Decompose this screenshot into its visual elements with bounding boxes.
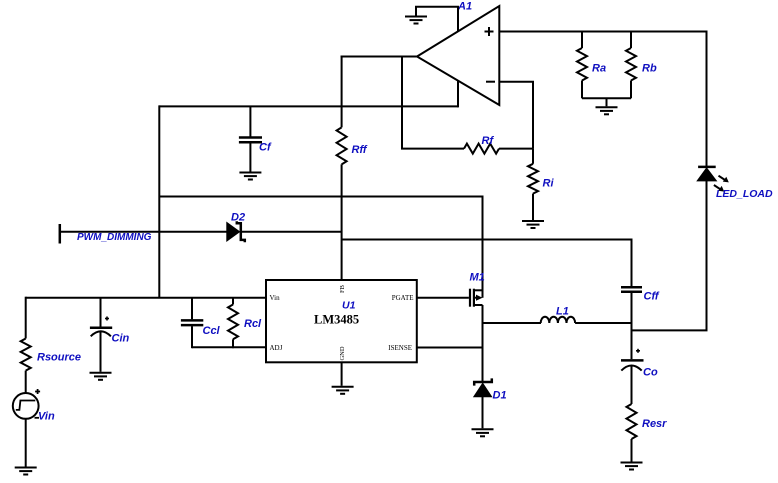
wire M1 drain down (switch node) bbox=[482, 305, 484, 381]
ground (Cin) bbox=[90, 373, 112, 380]
svg-text:Vin: Vin bbox=[38, 411, 55, 423]
capacitor Ccl bbox=[181, 298, 221, 349]
ground (Ri) bbox=[522, 221, 544, 228]
svg-text:PGATE: PGATE bbox=[392, 294, 414, 302]
svg-text:Resr: Resr bbox=[642, 418, 667, 430]
wire Cff to switch output node bbox=[631, 293, 633, 324]
svg-text:Vin: Vin bbox=[270, 294, 281, 302]
svg-text:FB: FB bbox=[339, 284, 346, 293]
wire output branch down to Rf bbox=[402, 56, 464, 149]
ground (Vin) bbox=[15, 468, 37, 475]
resistor Rf bbox=[464, 135, 499, 154]
svg-text:LED_LOAD: LED_LOAD bbox=[716, 188, 773, 200]
wire ISENSE bbox=[417, 347, 483, 349]
wire switch node to L1 bbox=[482, 322, 542, 324]
svg-text:A1: A1 bbox=[457, 1, 472, 13]
PWM_DIMMING input port bbox=[60, 224, 152, 244]
capacitor Co (polarized) bbox=[621, 349, 658, 379]
svg-text:Rf: Rf bbox=[482, 135, 495, 147]
svg-text:Rsource: Rsource bbox=[37, 352, 81, 364]
ground (U1) bbox=[332, 387, 354, 394]
svg-text:U1: U1 bbox=[342, 300, 356, 312]
svg-text:Cff: Cff bbox=[644, 291, 660, 303]
svg-text:ISENSE: ISENSE bbox=[388, 344, 412, 352]
op-amp U-A1 triangle bbox=[417, 6, 499, 105]
wire Resr to ground bbox=[631, 439, 633, 462]
capacitor Cf bbox=[239, 106, 272, 171]
IC U1 LM3485 bbox=[266, 280, 417, 362]
wire LED to output node bbox=[631, 181, 707, 331]
wire PGATE to M1 gate bbox=[417, 297, 469, 299]
inductor L1 bbox=[541, 306, 575, 324]
wire input rail bbox=[26, 297, 266, 299]
ground (op-amp V+) bbox=[405, 17, 427, 24]
capacitor Cff bbox=[621, 287, 660, 302]
resistor Rb bbox=[626, 32, 657, 99]
svg-text:Rcl: Rcl bbox=[244, 318, 262, 330]
wire op-amp V+ supply pin to ground bbox=[416, 7, 458, 32]
wire ADJ pin bbox=[192, 346, 266, 348]
svg-text:Rb: Rb bbox=[642, 63, 657, 75]
wire Rf to inverting node bbox=[499, 148, 533, 150]
svg-text:PWM_DIMMING: PWM_DIMMING bbox=[77, 232, 152, 243]
wire Ra/Rb bottoms bbox=[582, 97, 631, 99]
svg-text:Ri: Ri bbox=[543, 178, 555, 190]
ground (D1) bbox=[472, 429, 494, 436]
wire D2 cathode to FB node bbox=[242, 231, 342, 233]
svg-text:GND: GND bbox=[339, 346, 346, 360]
diode D2 (schottky) bbox=[227, 212, 245, 243]
ground (Resr) bbox=[621, 463, 643, 470]
wire op-amp noninverting input bbox=[499, 31, 707, 33]
diode D1 (schottky) bbox=[474, 378, 507, 401]
svg-text:Cin: Cin bbox=[112, 333, 130, 345]
wire D1 anode to ground bbox=[482, 397, 484, 429]
wire L1 to output node bbox=[575, 322, 632, 324]
wire left vertical rail bbox=[158, 105, 160, 297]
resistor Ra bbox=[577, 32, 606, 99]
resistor Resr bbox=[627, 404, 668, 439]
svg-text:Ccl: Ccl bbox=[203, 325, 221, 337]
resistor Ri bbox=[528, 149, 554, 220]
svg-text:LM3485: LM3485 bbox=[314, 313, 359, 327]
svg-text:M1: M1 bbox=[470, 272, 485, 284]
wire PWM_DIMMING to D2 bbox=[60, 231, 228, 233]
ground (Ra/Rb) bbox=[596, 107, 618, 114]
svg-text:Rff: Rff bbox=[352, 144, 368, 156]
svg-text:ADJ: ADJ bbox=[270, 344, 283, 352]
svg-text:Co: Co bbox=[643, 367, 658, 379]
wire output node to Co bbox=[631, 323, 633, 359]
svg-text:L1: L1 bbox=[556, 306, 569, 318]
resistor Rcl bbox=[228, 298, 262, 349]
resistor Rsource bbox=[21, 297, 81, 393]
wire op-amp inverting input down to Rf bbox=[499, 82, 533, 149]
wire Rff down to FB pin of U1 bbox=[341, 164, 343, 280]
source Vin (step voltage source) bbox=[13, 389, 55, 423]
transistor M1 (PMOS) bbox=[470, 272, 485, 307]
wire feedback bus (node at y=106) bbox=[159, 105, 458, 107]
wire Cin to ground bbox=[100, 332, 102, 372]
wire op-amp output bbox=[341, 56, 418, 58]
wire op-amp V- supply pin bbox=[457, 81, 459, 107]
wire right rail to LED bbox=[706, 32, 708, 167]
svg-text:D1: D1 bbox=[493, 390, 507, 402]
wire Co to Resr bbox=[631, 366, 633, 404]
wire bus from left rail to M1 source bbox=[159, 197, 482, 298]
LED diode LED_LOAD bbox=[697, 167, 729, 192]
svg-text:D2: D2 bbox=[231, 212, 245, 224]
wire Vin source to ground bbox=[25, 419, 27, 467]
svg-text:Ra: Ra bbox=[592, 63, 606, 75]
svg-text:Cf: Cf bbox=[259, 142, 272, 154]
wire op-amp output down to Rff bbox=[341, 56, 343, 128]
capacitor Cin (polarized) bbox=[90, 298, 130, 345]
wire FB node to Cff bbox=[342, 240, 632, 287]
ground (Cf) bbox=[239, 173, 261, 180]
wire to ground (Ra/Rb) bbox=[606, 98, 608, 106]
resistor Rff bbox=[337, 127, 368, 164]
wire U1 GND pin bbox=[341, 362, 343, 386]
